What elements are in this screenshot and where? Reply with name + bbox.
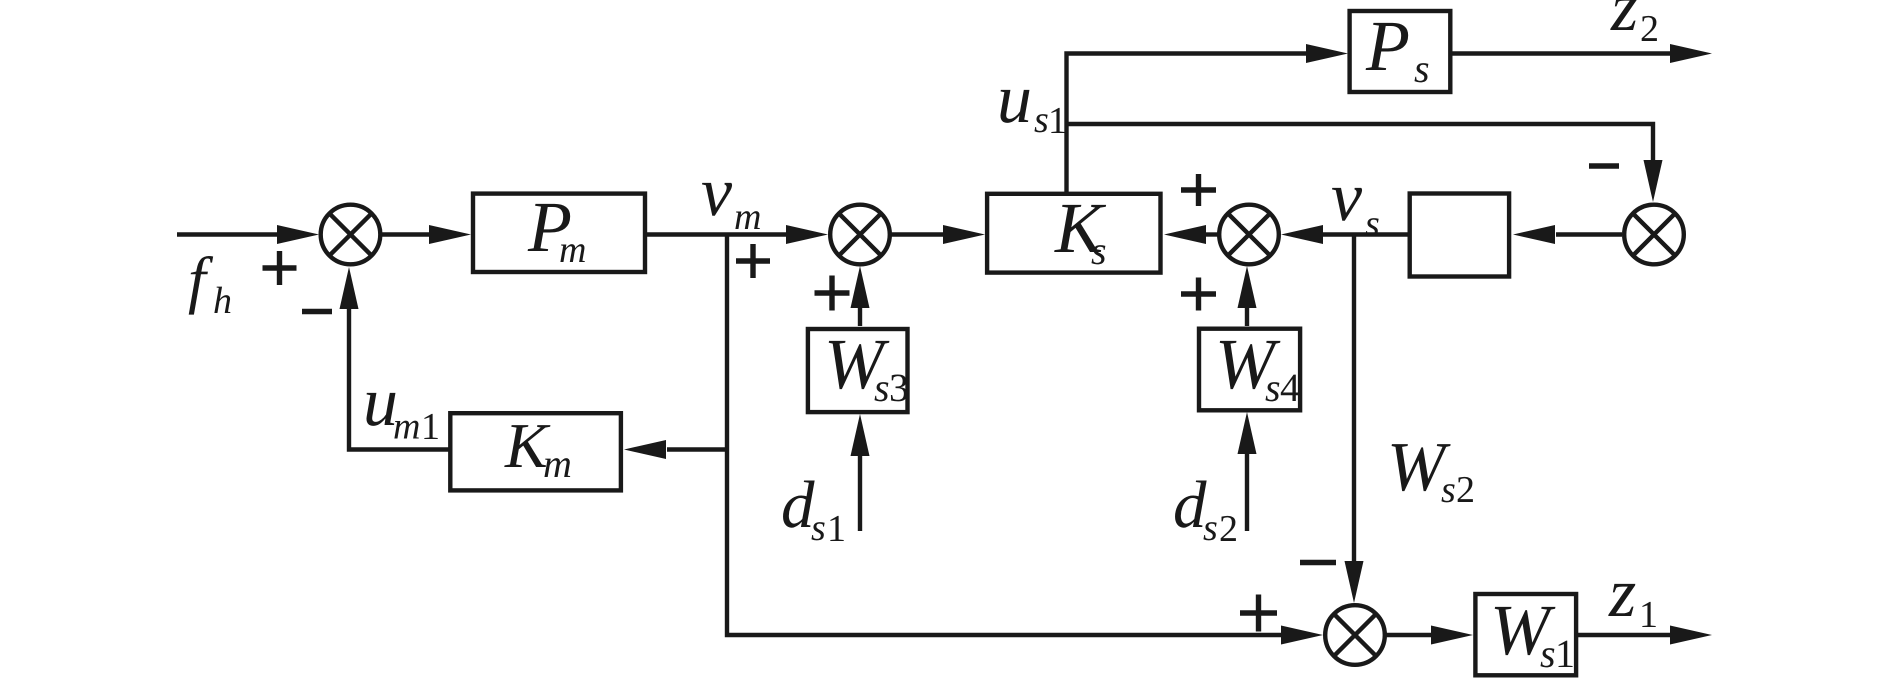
wire Pm to S2 bbox=[647, 232, 789, 236]
arrowhead ds1 into Ws3 bbox=[851, 414, 870, 456]
wire Ws3 to S2 bbox=[858, 307, 862, 326]
wire S2 to Ks bbox=[890, 232, 946, 236]
plus sign at S3 lower bbox=[1181, 278, 1216, 311]
wire S5 to Ws1 bbox=[1385, 633, 1432, 637]
arrowhead into Ps bbox=[1306, 44, 1348, 63]
label Ws2 bbox=[1387, 429, 1475, 511]
minus sign at S4 bbox=[1589, 163, 1619, 168]
block Ps box bbox=[1350, 11, 1451, 92]
wire us1 feedback to S4 bbox=[1067, 124, 1654, 162]
svg-text:s: s bbox=[1034, 99, 1049, 141]
label z2 bbox=[1610, 0, 1659, 50]
arrowhead z2 output bbox=[1670, 44, 1712, 63]
wire Km out up to S1 bbox=[349, 308, 450, 450]
summing junction S3 bbox=[1219, 205, 1279, 265]
svg-text:2: 2 bbox=[1219, 508, 1238, 550]
svg-text:m: m bbox=[543, 441, 572, 486]
svg-text:s: s bbox=[1265, 365, 1281, 410]
block Ws1 box bbox=[1475, 594, 1576, 675]
summing junction S4 bbox=[1624, 205, 1684, 265]
arrowhead into Ks left bbox=[943, 225, 985, 244]
wire branch to Km bbox=[667, 447, 727, 451]
svg-text:1: 1 bbox=[1048, 100, 1067, 142]
svg-text:2: 2 bbox=[1640, 8, 1659, 50]
svg-text:z: z bbox=[1608, 555, 1636, 632]
wire vs branch down to S5 bbox=[1352, 235, 1356, 563]
wire Ps to z2 bbox=[1450, 51, 1672, 55]
arrowhead into Pm bbox=[429, 225, 471, 244]
block unnamed bbox=[1410, 194, 1509, 277]
label z1 bbox=[1608, 555, 1658, 636]
plus sign at S2 horizontal input bbox=[736, 244, 770, 278]
svg-text:m: m bbox=[734, 196, 761, 238]
svg-text:s: s bbox=[1091, 228, 1107, 273]
svg-text:m: m bbox=[393, 406, 420, 448]
block Ws3 box bbox=[808, 329, 908, 412]
plus sign at S1 bbox=[263, 251, 297, 285]
svg-text:s: s bbox=[1203, 507, 1218, 549]
arrowhead into Ws1 bbox=[1431, 626, 1473, 645]
block Ks box bbox=[987, 194, 1160, 273]
arrowhead Km loop into S1 bbox=[340, 267, 359, 309]
arrowhead into S3 right bbox=[1281, 225, 1323, 244]
svg-text:u: u bbox=[997, 61, 1032, 138]
svg-text:s: s bbox=[1414, 46, 1430, 91]
arrowhead into unnamed box bbox=[1513, 225, 1555, 244]
wire Ws4 to S3 bbox=[1245, 307, 1249, 326]
svg-text:d: d bbox=[781, 468, 815, 542]
svg-text:v: v bbox=[701, 154, 733, 231]
summing junction S1 bbox=[321, 205, 381, 265]
svg-text:m: m bbox=[559, 229, 586, 271]
arrowhead Ws4 to S3 bbox=[1238, 266, 1257, 308]
svg-text:1: 1 bbox=[421, 406, 440, 448]
arrowhead into S4 top bbox=[1644, 160, 1663, 202]
svg-text:s: s bbox=[1441, 469, 1456, 511]
wire ds1 to Ws3 bbox=[858, 455, 862, 531]
svg-text:s: s bbox=[1365, 203, 1380, 245]
wire S3 to Ks bbox=[1206, 232, 1218, 236]
label vs bbox=[1331, 159, 1380, 245]
label us1 bbox=[997, 61, 1067, 142]
svg-text:1: 1 bbox=[827, 508, 846, 550]
plus sign at S2 vertical input bbox=[815, 276, 850, 311]
svg-text:3: 3 bbox=[889, 365, 909, 410]
summing junction S5 bbox=[1325, 605, 1385, 665]
arrowhead ds2 into Ws4 bbox=[1238, 412, 1257, 454]
svg-text:P: P bbox=[1365, 6, 1410, 86]
minus sign at S1 bbox=[302, 309, 332, 314]
minus sign at S5 bbox=[1300, 560, 1336, 565]
svg-text:4: 4 bbox=[1280, 365, 1300, 410]
svg-text:s: s bbox=[811, 507, 826, 549]
block Pm box bbox=[473, 194, 645, 272]
block Km box bbox=[450, 413, 621, 490]
block Pm label bbox=[527, 187, 586, 271]
wire ds2 to Ws4 bbox=[1245, 453, 1249, 531]
wire S1 to Pm bbox=[380, 232, 432, 236]
plus sign at S5 bbox=[1240, 595, 1277, 632]
svg-text:v: v bbox=[1331, 159, 1363, 236]
wire Ws1 to z1 bbox=[1578, 633, 1670, 637]
arrowhead bottom line into S5 bbox=[1281, 626, 1323, 645]
arrowhead z1 output bbox=[1670, 626, 1712, 645]
svg-text:d: d bbox=[1173, 468, 1207, 542]
block Ws3 label bbox=[824, 324, 909, 410]
arrowhead into S2 bbox=[786, 225, 828, 244]
svg-text:2: 2 bbox=[1456, 469, 1475, 511]
wire vm branch down and along bottom to S5 bbox=[727, 235, 1282, 636]
arrowhead Ws3 to S2 bbox=[851, 266, 870, 308]
block Ws4 box bbox=[1199, 329, 1300, 411]
wire unnamed box to S3 with vs node bbox=[1323, 232, 1409, 236]
label ds1 bbox=[781, 468, 846, 550]
arrowhead into Km bbox=[624, 440, 666, 459]
svg-text:s: s bbox=[874, 365, 890, 410]
summing junction S2 bbox=[830, 205, 890, 265]
block Ps label bbox=[1365, 6, 1430, 91]
block Km label bbox=[504, 410, 572, 486]
block Ws4 label bbox=[1215, 324, 1300, 410]
wire S4 to unnamed box bbox=[1556, 232, 1622, 236]
svg-text:z: z bbox=[1610, 0, 1638, 46]
arrowhead input to S1 bbox=[277, 225, 319, 244]
wire Ks top vertical us1 bbox=[1067, 54, 1309, 195]
svg-text:1: 1 bbox=[1639, 594, 1658, 636]
svg-text:s: s bbox=[1540, 631, 1556, 676]
arrowhead vs down into S5 bbox=[1345, 561, 1364, 603]
block Ks label bbox=[1054, 188, 1107, 273]
label ds2 bbox=[1173, 468, 1238, 550]
plus sign at S3 upper bbox=[1181, 174, 1216, 206]
svg-text:f: f bbox=[188, 244, 214, 315]
svg-text:h: h bbox=[213, 280, 232, 322]
label fh bbox=[188, 244, 232, 322]
arrowhead into Ks right bbox=[1164, 225, 1206, 244]
svg-text:1: 1 bbox=[1555, 631, 1575, 676]
wire input fh bbox=[177, 232, 280, 236]
block Ws1 label bbox=[1490, 590, 1575, 676]
label vm bbox=[701, 154, 761, 238]
label um1 bbox=[363, 364, 440, 448]
